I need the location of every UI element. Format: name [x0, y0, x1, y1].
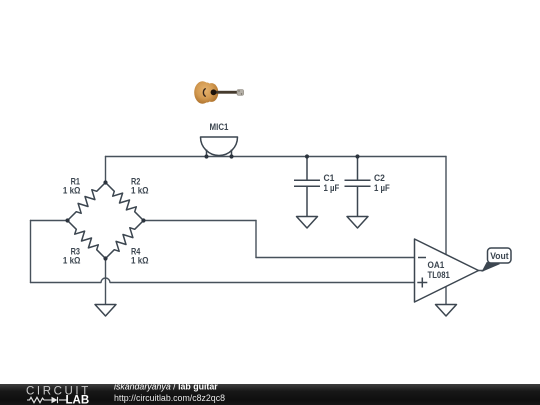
node C1 top: [305, 154, 309, 158]
wire op-amp V+ drop: [445, 157, 447, 255]
ground under C2: [347, 217, 368, 229]
footer logo resistor-diode line: [27, 397, 67, 403]
guitar icon: [194, 81, 243, 103]
capacitor C2: [345, 157, 371, 217]
wire op-amp V- to ground: [445, 287, 447, 305]
flag Vout: [483, 248, 512, 271]
svg-text:1 kΩ: 1 kΩ: [63, 256, 81, 266]
svg-text:http://circuitlab.com/c8z2qc8: http://circuitlab.com/c8z2qc8: [114, 393, 225, 403]
ground under bridge: [95, 305, 116, 317]
svg-text:MIC1: MIC1: [210, 122, 229, 132]
footer bar: [0, 384, 540, 405]
resistor R1: [68, 183, 106, 221]
wire non-inverting input with hop: [31, 278, 415, 283]
wire bridge bottom to ground: [105, 259, 107, 305]
wire left node to left rail: [31, 220, 68, 222]
node C2 top: [355, 154, 359, 158]
svg-text:C1: C1: [324, 173, 335, 183]
svg-text:LAB: LAB: [66, 395, 90, 405]
resistor R3: [68, 221, 106, 259]
svg-text:iskandaryahya / lab guitar: iskandaryahya / lab guitar: [114, 382, 218, 392]
resistor R2: [106, 183, 144, 221]
node bridge top: [103, 180, 107, 184]
svg-text:TL081: TL081: [428, 270, 450, 280]
svg-text:1 µF: 1 µF: [324, 183, 340, 193]
svg-text:1 µF: 1 µF: [374, 183, 390, 193]
node bridge bottom: [103, 256, 107, 260]
svg-text:1 kΩ: 1 kΩ: [63, 186, 81, 196]
node bridge left: [65, 218, 69, 222]
op-amp OA1: [415, 239, 479, 302]
wire top rail: [106, 156, 447, 158]
wire op-amp output: [479, 270, 484, 272]
wire top node vertical: [105, 157, 107, 183]
microphone MIC1: [201, 137, 238, 157]
wire left vertical: [30, 221, 32, 283]
junction dots: [65, 154, 359, 260]
resistor R4: [106, 221, 144, 259]
wire right vertical: [255, 221, 257, 258]
wire right node to right: [144, 220, 257, 222]
svg-text:C2: C2: [374, 173, 385, 183]
wire inverting input: [256, 257, 415, 259]
node mic left lead: [204, 154, 208, 158]
ground under op-amp: [436, 305, 457, 317]
capacitor C1: [294, 157, 320, 217]
svg-text:Vout: Vout: [490, 251, 509, 262]
node bridge right: [141, 218, 145, 222]
svg-text:1 kΩ: 1 kΩ: [131, 256, 149, 266]
svg-text:OA1: OA1: [428, 260, 445, 270]
ground under C1: [297, 217, 318, 229]
svg-text:1 kΩ: 1 kΩ: [131, 186, 149, 196]
node mic right lead: [229, 154, 233, 158]
